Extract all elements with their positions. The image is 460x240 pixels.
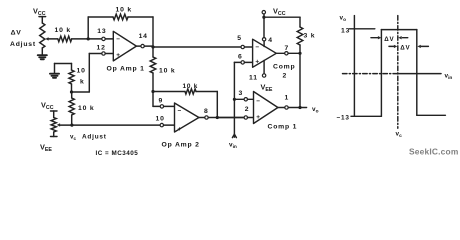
svg-text:IC = MC3405: IC = MC3405 — [96, 150, 139, 157]
svg-text:6: 6 — [238, 54, 243, 61]
svg-text:vo: vo — [340, 15, 347, 24]
svg-text:vc: vc — [396, 131, 403, 140]
svg-text:SeekIC.com: SeekIC.com — [409, 147, 458, 157]
svg-text:+: + — [116, 52, 121, 59]
svg-text:Adjust: Adjust — [10, 41, 36, 48]
svg-text:3: 3 — [239, 90, 244, 97]
svg-text:10 k: 10 k — [159, 68, 175, 75]
svg-text:+: + — [255, 58, 260, 65]
svg-text:13: 13 — [341, 27, 350, 34]
svg-text:k: k — [80, 79, 85, 86]
svg-text:10: 10 — [77, 68, 86, 75]
svg-text:Adjust: Adjust — [82, 134, 107, 141]
svg-text:2: 2 — [283, 73, 288, 80]
svg-text:14: 14 — [139, 33, 148, 40]
svg-text:10 k: 10 k — [116, 7, 132, 14]
svg-text:VEE: VEE — [261, 83, 273, 94]
svg-text:VEE: VEE — [40, 143, 52, 154]
svg-text:−: − — [256, 98, 261, 105]
svg-text:10 k: 10 k — [78, 105, 94, 112]
svg-text:−: − — [178, 107, 183, 114]
svg-text:Op Amp 2: Op Amp 2 — [162, 142, 200, 149]
svg-text:12: 12 — [97, 45, 106, 52]
svg-text:10 k: 10 k — [183, 83, 199, 90]
svg-text:3 k: 3 k — [304, 33, 316, 40]
svg-text:7: 7 — [285, 45, 290, 52]
svg-text:ΔV: ΔV — [384, 36, 394, 43]
svg-text:vo: vo — [312, 106, 319, 115]
svg-text:9: 9 — [159, 98, 164, 105]
svg-text:VCC: VCC — [41, 101, 54, 112]
svg-text:Comp 1: Comp 1 — [268, 124, 298, 131]
svg-text:10 k: 10 k — [55, 27, 71, 34]
svg-text:ΔV: ΔV — [400, 45, 410, 52]
svg-text:+: + — [256, 114, 261, 121]
svg-text:−: − — [116, 36, 121, 43]
svg-text:4: 4 — [268, 37, 273, 44]
svg-text:−13: −13 — [337, 114, 350, 121]
svg-text:+: + — [178, 126, 183, 133]
svg-text:Op Amp 1: Op Amp 1 — [107, 66, 145, 73]
svg-text:8: 8 — [204, 108, 209, 115]
svg-text:vc: vc — [70, 134, 76, 142]
svg-text:ΔV: ΔV — [11, 29, 22, 36]
svg-text:VCC: VCC — [273, 7, 286, 18]
svg-text:−: − — [255, 44, 260, 51]
svg-text:11: 11 — [249, 75, 258, 82]
svg-text:10: 10 — [156, 115, 165, 122]
svg-text:2: 2 — [245, 106, 250, 113]
svg-text:VCC: VCC — [33, 7, 46, 18]
svg-text:1: 1 — [285, 95, 290, 102]
svg-text:vin: vin — [445, 73, 453, 82]
svg-text:5: 5 — [237, 35, 242, 42]
svg-text:Comp: Comp — [273, 64, 295, 71]
svg-text:13: 13 — [97, 28, 106, 35]
svg-text:vin: vin — [229, 142, 237, 151]
